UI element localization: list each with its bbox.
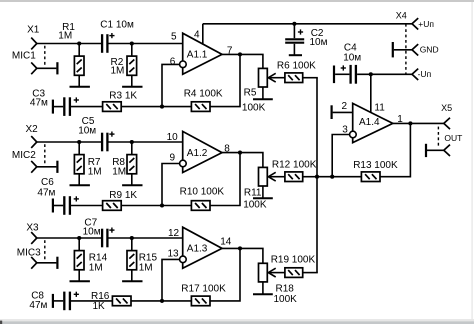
wire (C4 to -Un pin) — [357, 73, 412, 75]
ground (under R7) — [70, 184, 90, 186]
resistor R15 1M — [127, 238, 157, 281]
wire (A1.3 output to R18) — [222, 248, 263, 263]
svg-text:1K: 1K — [93, 301, 106, 312]
svg-text:12: 12 — [168, 228, 180, 239]
resistor R16 1K — [91, 291, 131, 312]
capacitor C5 10м — [78, 116, 114, 151]
svg-text:10м: 10м — [78, 125, 96, 136]
ground (under R5) — [253, 98, 273, 100]
wire (R6 to summing bus) — [303, 77, 318, 79]
wire (R3 to R4) — [121, 106, 191, 108]
wire (R13 to A1.4 output) — [380, 123, 410, 176]
wire (X2 shield pin) — [37, 166, 57, 168]
svg-text:1M: 1M — [88, 167, 102, 178]
svg-text:X4: X4 — [396, 10, 407, 20]
connector X2 (MIC2 input) — [12, 124, 45, 173]
svg-text:10м: 10м — [343, 53, 361, 64]
resistor R19 100K — [271, 255, 316, 278]
node (R1 junction) — [77, 41, 81, 45]
capacitor C4 10м (-Un decoupling) — [335, 43, 361, 84]
svg-text:100K: 100K — [243, 200, 267, 211]
ground (under R15) — [122, 280, 142, 282]
capacitor C1 10м — [100, 20, 134, 53]
node (R2 junction) — [130, 41, 134, 45]
wire (A1.3 pin 13 feedback) — [162, 259, 180, 301]
resistor R1 1M — [58, 22, 84, 86]
resistor R12 100K — [272, 160, 317, 182]
svg-text:A1.2: A1.2 — [187, 148, 208, 159]
svg-text:A1.3: A1.3 — [187, 244, 208, 255]
resistor R4 100K — [184, 89, 223, 112]
wire (R12 to summing bus) — [303, 176, 318, 178]
svg-text:9: 9 — [170, 153, 176, 164]
ground (under R1) — [70, 86, 90, 88]
svg-text:A1.1: A1.1 — [187, 50, 208, 61]
connector X5 (OUT) — [438, 103, 462, 156]
resistor R14 1M — [74, 238, 107, 281]
wire (+Un rail) — [203, 23, 412, 25]
resistor R2 1M — [111, 44, 137, 87]
svg-text:MIC3: MIC3 — [17, 248, 41, 259]
wire (pin 4 to +Un rail) — [202, 24, 204, 45]
capacitor C6 47м — [37, 177, 79, 215]
svg-text:11: 11 — [374, 103, 385, 114]
svg-text:2: 2 — [342, 101, 348, 112]
svg-text:R4 100K: R4 100K — [184, 89, 223, 100]
wire (A1.2 pin 9 feedback) — [162, 164, 180, 206]
wire (R16 to R17) — [131, 300, 191, 302]
svg-text:+Uп: +Uп — [418, 19, 434, 29]
op-amp A1.3 — [180, 227, 222, 268]
svg-text:1M: 1M — [112, 167, 126, 178]
op-amp A1.4 — [350, 103, 393, 142]
wire (R9 to R10) — [121, 205, 191, 207]
wire (X1 pin to C1) — [37, 43, 101, 45]
node (R15 junction) — [130, 236, 134, 240]
resistor R7 1M — [74, 142, 101, 185]
svg-text:R10 100K: R10 100K — [180, 187, 225, 198]
node (R8 junction) — [130, 140, 134, 144]
svg-text:47м: 47м — [37, 188, 55, 199]
wire (C6 to R9) — [71, 205, 103, 207]
svg-text:R9 1K: R9 1K — [109, 190, 137, 201]
node (C2 junction) — [292, 22, 296, 26]
ground (C8 return) — [52, 294, 54, 308]
wire (summing bus to A1.4 pin 3 branch) — [317, 176, 361, 178]
svg-text:OUT: OUT — [444, 133, 462, 143]
wire (C8 to R16) — [71, 300, 112, 302]
op-amp A1.2 — [180, 131, 222, 172]
node (A1.3 output) — [238, 246, 242, 250]
connector X3 (MIC3 input) — [17, 223, 45, 269]
wire (A1.4 output) — [393, 122, 444, 124]
svg-text:R5: R5 — [244, 87, 257, 98]
svg-text:100K: 100K — [242, 102, 266, 113]
svg-text:GND: GND — [420, 45, 439, 55]
wire (A1.2 output to R11) — [222, 153, 263, 168]
node (C4 / pin 11 junction) — [369, 72, 373, 76]
wire (GND pin) — [394, 49, 412, 51]
svg-text:47м: 47м — [29, 300, 47, 311]
svg-text:3: 3 — [342, 124, 348, 135]
svg-text:R12 100K: R12 100K — [272, 160, 317, 171]
svg-text:X1: X1 — [27, 25, 40, 36]
capacitor C7 10м — [83, 217, 115, 247]
svg-text:4: 4 — [194, 30, 200, 41]
node (A1.4 inverting input) — [330, 175, 334, 179]
resistor R6 100K — [277, 61, 316, 83]
ground (under R14) — [70, 280, 90, 282]
ground (under R18) — [253, 293, 273, 295]
node (R9/R10 junction) — [160, 203, 164, 207]
svg-text:100K: 100K — [274, 294, 298, 305]
wire (X2 pin to C5) — [37, 141, 101, 143]
svg-text:A1.4: A1.4 — [359, 117, 380, 128]
svg-text:X3: X3 — [26, 223, 39, 234]
svg-text:10м: 10м — [83, 227, 101, 238]
svg-text:10: 10 — [167, 132, 179, 143]
ground (C3 return) — [52, 100, 54, 114]
svg-text:-Uп: -Uп — [418, 69, 432, 79]
wire (C1 to A1.1 pin 5) — [109, 43, 183, 45]
capacitor C2 10м (+Un decoupling) — [285, 24, 327, 55]
svg-text:5: 5 — [171, 31, 177, 42]
svg-text:X5: X5 — [441, 103, 452, 113]
ground (X1 shield) — [56, 62, 58, 74]
ground (under C2) — [289, 54, 302, 56]
svg-text:1M: 1M — [139, 262, 153, 273]
svg-text:R3 1K: R3 1K — [109, 91, 137, 102]
ground (X2 shield) — [56, 161, 58, 173]
node (A1.4 output / X5) — [408, 121, 412, 125]
resistor R8 1M — [112, 142, 136, 185]
resistor R9 1K — [103, 190, 138, 210]
node (R3/R4 junction) — [160, 105, 164, 109]
wire (A1.1 output to R5) — [222, 54, 263, 68]
node (R16/R17 junction) — [160, 299, 164, 303]
wire (A1.1 pin 6 feedback) — [162, 64, 180, 106]
ground (under R2) — [122, 86, 142, 88]
potentiometer R11 100K — [243, 167, 285, 210]
svg-text:R19 100K: R19 100K — [271, 255, 316, 266]
ground (C4 return) — [333, 66, 335, 84]
node (summing bus / R12) — [315, 175, 319, 179]
svg-text:X2: X2 — [26, 124, 39, 135]
svg-text:1M: 1M — [89, 262, 103, 273]
node (R7 junction) — [77, 140, 81, 144]
ground (C6 return) — [52, 199, 54, 213]
svg-text:1M: 1M — [111, 65, 125, 76]
capacitor C8 47м — [29, 291, 79, 311]
resistor R10 100K — [180, 187, 225, 211]
svg-text:14: 14 — [220, 237, 232, 248]
ground (X3 shield) — [56, 257, 58, 269]
capacitor C3 47м — [30, 88, 79, 116]
wire (X1 shield pin) — [37, 67, 57, 69]
wire (X3 pin to C7) — [37, 237, 101, 239]
node (A1.2 output) — [238, 151, 242, 155]
svg-text:R6 100K: R6 100K — [277, 61, 316, 72]
wire (X3 shield pin) — [37, 262, 57, 264]
svg-text:R17 100K: R17 100K — [181, 284, 226, 295]
wire (R4 to A1.1 output) — [210, 54, 240, 106]
svg-text:R11: R11 — [244, 187, 262, 198]
svg-text:13: 13 — [168, 248, 180, 259]
wire (R19 to summing bus) — [303, 272, 318, 274]
op-amp A1.1 — [180, 33, 222, 74]
potentiometer R18 100K — [259, 263, 298, 305]
svg-text:MIC1: MIC1 — [12, 51, 36, 62]
wire (pin 3 lead) — [332, 135, 349, 177]
svg-text:6: 6 — [170, 56, 176, 67]
ground (under R11) — [253, 197, 273, 199]
ground (under R8) — [122, 184, 142, 186]
wire (X5 shield pin) — [427, 149, 444, 151]
wire (summing bus vertical) — [316, 78, 318, 273]
wire (R17 to A1.3 output) — [210, 248, 240, 301]
svg-text:1M: 1M — [58, 31, 72, 42]
svg-text:R13 100K: R13 100K — [353, 160, 398, 171]
svg-text:10м: 10м — [310, 37, 328, 48]
wire (C5 to A1.2 pin 10) — [109, 141, 183, 143]
ground (X4 GND) — [392, 42, 394, 57]
potentiometer R5 100K — [242, 68, 285, 113]
resistor R17 100K — [181, 284, 226, 306]
wire (C3 to R3) — [71, 106, 103, 108]
resistor R3 1K — [103, 91, 138, 112]
connector X1 (MIC1 input) — [12, 25, 45, 75]
wire (pin 11 to -Un row) — [370, 74, 372, 112]
node (R14 junction) — [77, 236, 81, 240]
resistor R13 100K (A1.4 feedback) — [353, 160, 398, 181]
ground (A1.4 pin 2) — [332, 105, 353, 119]
svg-text:47м: 47м — [30, 97, 48, 108]
svg-text:C6: C6 — [41, 177, 54, 188]
wire (C7 to A1.3 pin 12) — [109, 237, 183, 239]
node (A1.1 output) — [238, 52, 242, 56]
svg-text:MIC2: MIC2 — [12, 150, 36, 161]
wire (R10 to A1.2 output) — [210, 153, 240, 206]
ground (X5 shield) — [425, 144, 427, 157]
svg-text:R18: R18 — [276, 284, 295, 295]
svg-text:C1 10м: C1 10м — [100, 20, 134, 31]
connector X4 (power) — [396, 10, 439, 80]
